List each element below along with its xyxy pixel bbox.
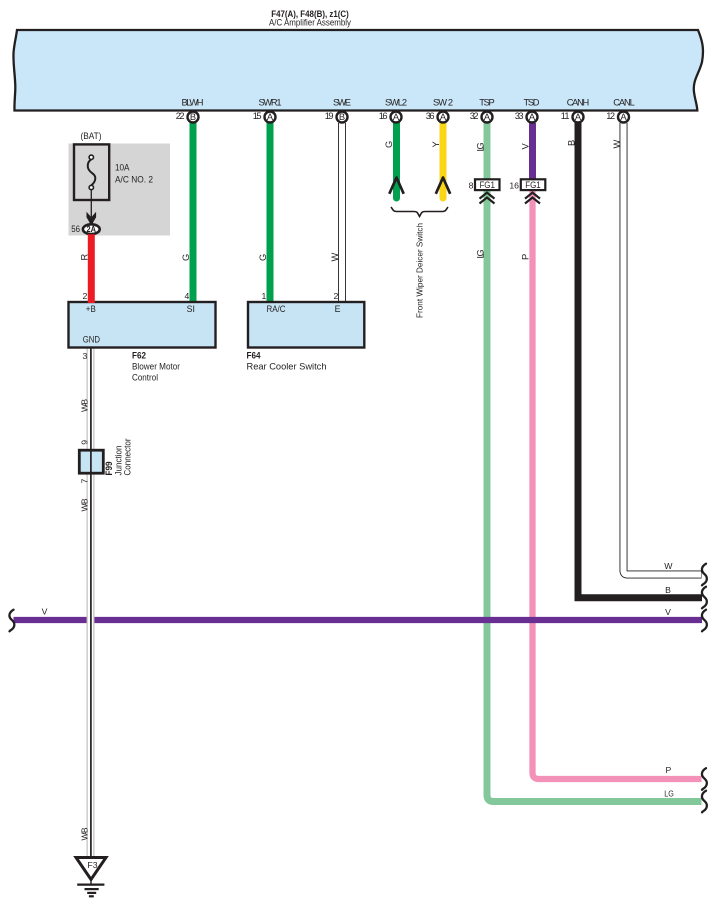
svg-text:W: W <box>330 253 340 262</box>
svg-text:19: 19 <box>325 111 334 121</box>
svg-text:Blower Motor: Blower Motor <box>132 362 180 372</box>
svg-text:2: 2 <box>82 291 87 301</box>
svg-text:16: 16 <box>379 111 388 121</box>
svg-text:W-B: W-B <box>79 498 89 511</box>
svg-text:FG1: FG1 <box>525 180 541 190</box>
svg-text:B: B <box>339 112 345 122</box>
svg-text:B: B <box>665 585 671 595</box>
svg-text:LG: LG <box>475 142 485 151</box>
svg-text:G: G <box>181 254 191 261</box>
svg-text:CANL: CANL <box>613 98 635 108</box>
svg-text:12: 12 <box>606 111 615 121</box>
svg-text:4: 4 <box>184 291 189 301</box>
svg-text:A/C NO. 2: A/C NO. 2 <box>115 174 153 184</box>
svg-text:A: A <box>267 112 274 122</box>
svg-text:2A: 2A <box>87 224 97 234</box>
svg-text:A: A <box>440 112 447 122</box>
svg-text:32: 32 <box>470 111 479 121</box>
svg-text:W: W <box>664 561 673 571</box>
svg-text:RA/C: RA/C <box>267 304 287 314</box>
svg-text:22: 22 <box>176 111 185 121</box>
svg-text:B: B <box>190 112 196 122</box>
svg-text:LG: LG <box>475 249 485 258</box>
svg-text:G: G <box>384 141 394 148</box>
svg-text:R: R <box>79 254 89 261</box>
svg-text:G: G <box>258 254 268 261</box>
svg-text:V: V <box>521 143 531 150</box>
svg-text:SWE: SWE <box>333 98 351 108</box>
svg-text:LG: LG <box>664 789 674 799</box>
svg-text:SWR1: SWR1 <box>259 98 282 108</box>
svg-text:16: 16 <box>509 181 519 191</box>
svg-text:3: 3 <box>82 351 87 361</box>
svg-text:TSD: TSD <box>524 98 540 108</box>
svg-text:BLWH: BLWH <box>182 98 204 108</box>
svg-text:B: B <box>567 140 577 146</box>
svg-text:Front Wiper Deicer Switch: Front Wiper Deicer Switch <box>415 223 425 318</box>
svg-text:11: 11 <box>561 111 570 121</box>
svg-text:W-B: W-B <box>79 827 89 840</box>
svg-text:V: V <box>665 607 671 617</box>
svg-text:P: P <box>666 765 672 775</box>
svg-text:A: A <box>393 112 400 122</box>
svg-text:F62: F62 <box>132 351 146 361</box>
svg-text:GND: GND <box>83 334 100 344</box>
svg-text:Rear Cooler Switch: Rear Cooler Switch <box>247 362 327 372</box>
svg-text:SI: SI <box>187 304 195 314</box>
svg-text:2: 2 <box>333 291 338 301</box>
svg-text:E: E <box>335 304 341 314</box>
svg-text:FG1: FG1 <box>479 180 495 190</box>
svg-text:SW 2: SW 2 <box>433 98 453 108</box>
svg-text:F64: F64 <box>247 351 262 361</box>
svg-text:A: A <box>575 112 582 122</box>
svg-text:33: 33 <box>515 111 524 121</box>
svg-text:CANH: CANH <box>567 98 590 108</box>
svg-text:W: W <box>612 140 622 149</box>
svg-text:8: 8 <box>469 181 474 191</box>
svg-text:V: V <box>42 607 48 617</box>
svg-text:A: A <box>620 112 627 122</box>
svg-text:1: 1 <box>261 291 266 301</box>
svg-text:36: 36 <box>426 111 435 121</box>
svg-text:10A: 10A <box>115 163 130 173</box>
svg-text:F3: F3 <box>87 860 97 870</box>
svg-text:A: A <box>484 112 491 122</box>
svg-text:P: P <box>521 254 531 260</box>
svg-text:56: 56 <box>71 224 80 234</box>
svg-text:SWL2: SWL2 <box>385 98 407 108</box>
svg-text:Connector: Connector <box>123 439 133 476</box>
svg-text:9: 9 <box>80 440 90 445</box>
svg-text:TSP: TSP <box>479 98 495 108</box>
svg-text:7: 7 <box>80 479 90 484</box>
svg-text:Y: Y <box>431 141 441 147</box>
svg-text:(BAT): (BAT) <box>81 131 102 141</box>
svg-text:A: A <box>529 112 536 122</box>
svg-text:F99: F99 <box>104 462 114 476</box>
svg-text:A/C Amplifier Assembly: A/C Amplifier Assembly <box>269 18 351 28</box>
svg-text:+B: +B <box>86 304 96 314</box>
svg-text:15: 15 <box>253 111 262 121</box>
svg-text:Control: Control <box>132 373 158 383</box>
svg-text:W-B: W-B <box>79 399 89 412</box>
